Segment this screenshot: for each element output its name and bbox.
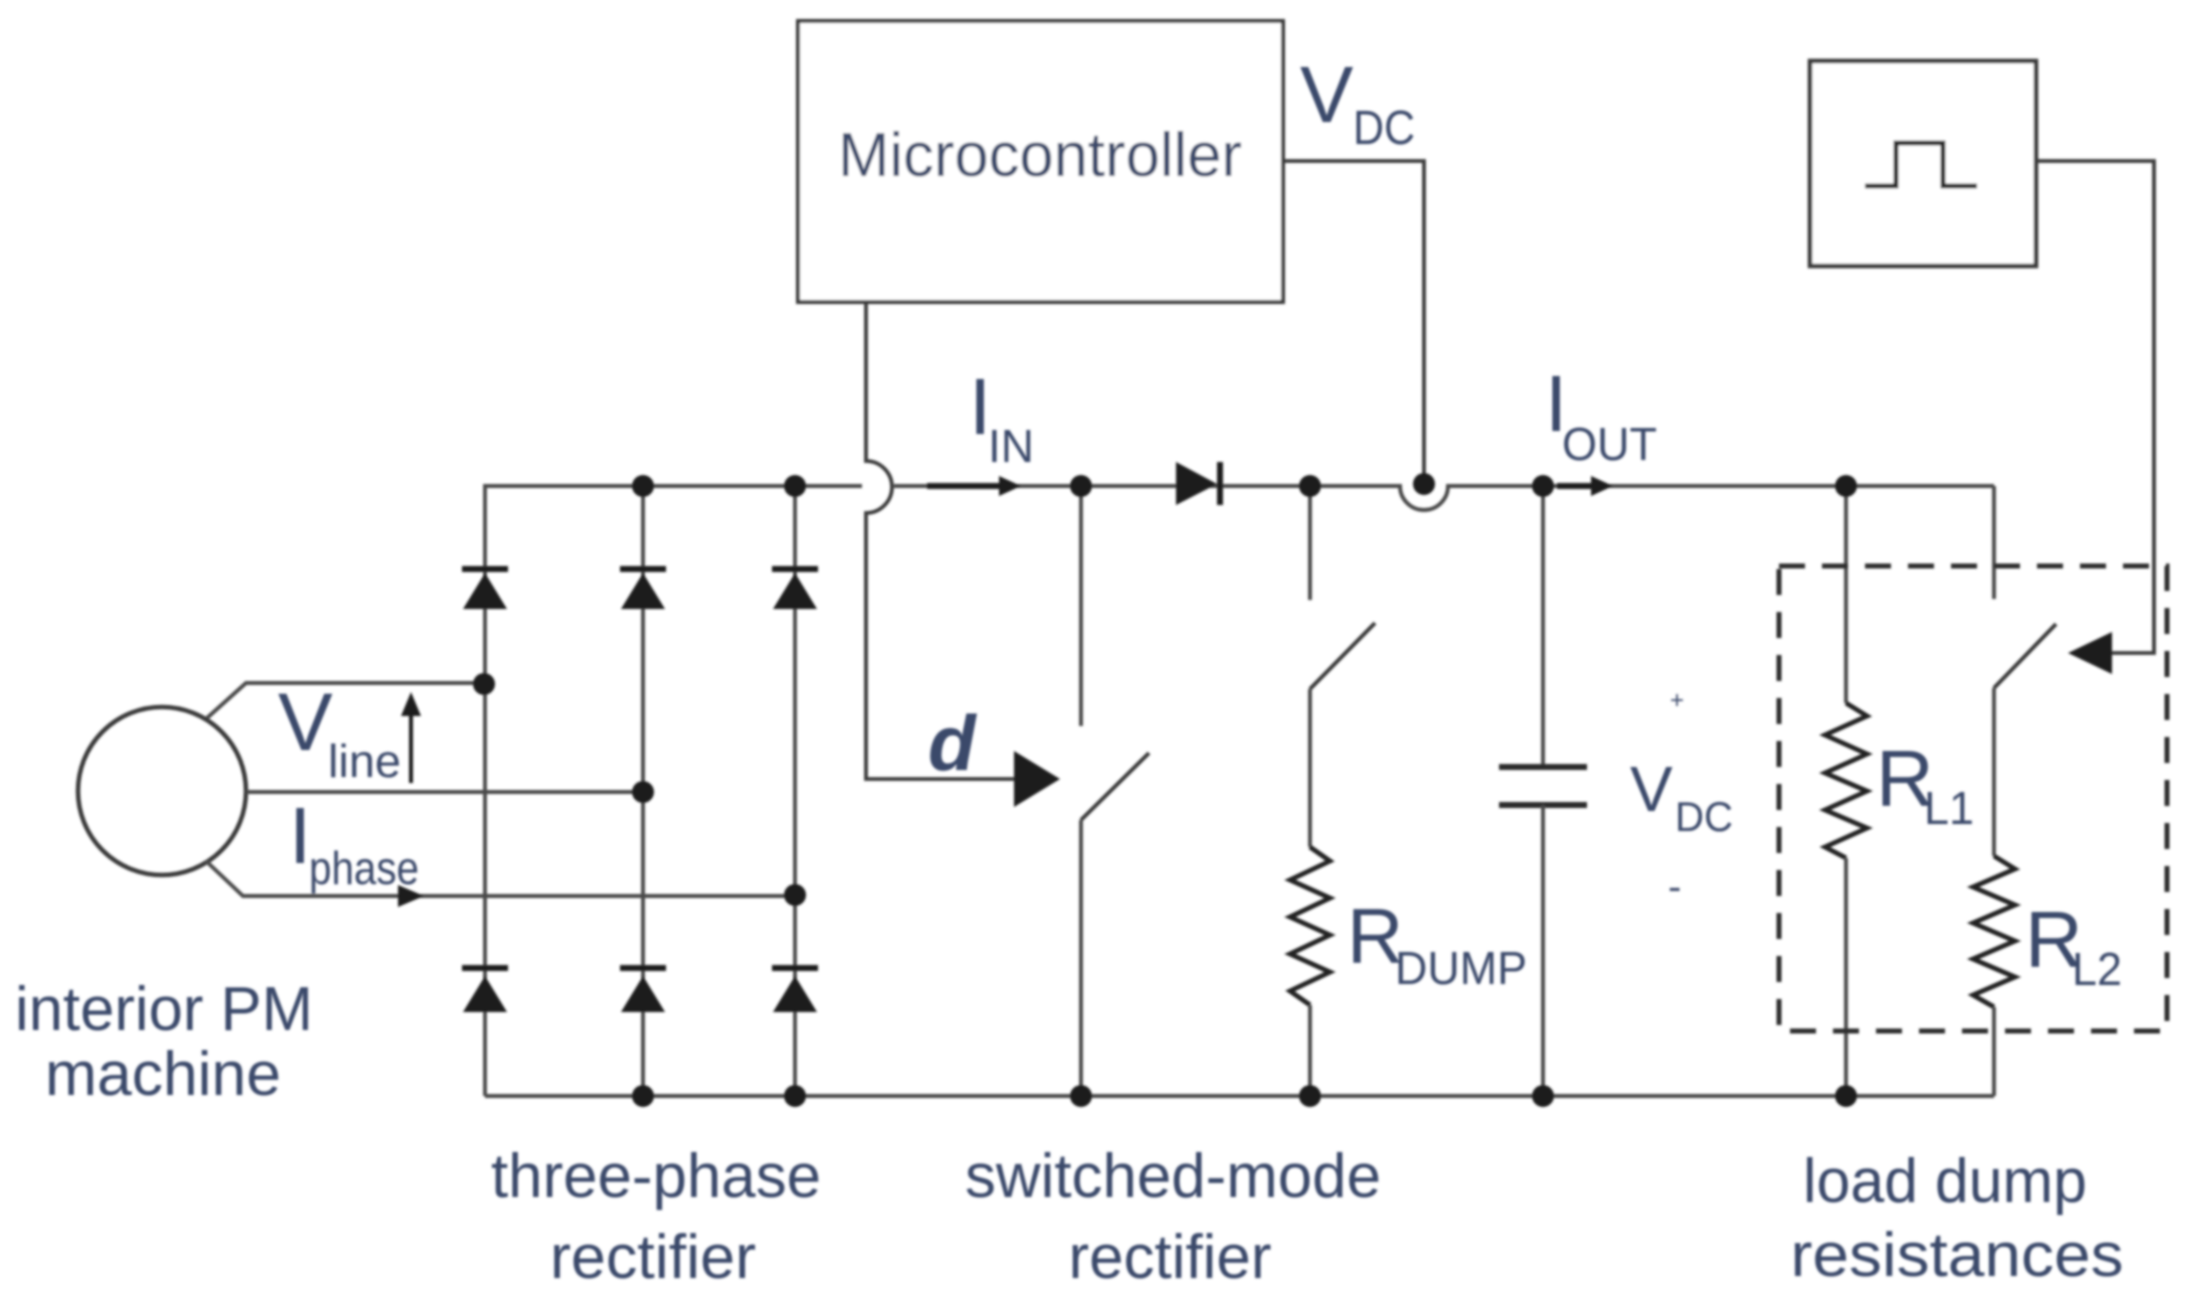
wire phase B (middle) from machine to rectifier <box>246 790 643 794</box>
R_DUMP leg upper wire <box>1308 486 1312 600</box>
SMR switch lower lead wire <box>1079 820 1083 1096</box>
node A3 top bus switch leg <box>1070 475 1092 497</box>
resistor R_L2 zigzag <box>1973 856 2015 1007</box>
capacitor lower plate <box>1499 802 1587 808</box>
top bus right of hop with dip arc at VDC sense node <box>894 486 1994 510</box>
wire phase C (bottom) from machine to rectifier <box>206 861 795 896</box>
svg-text:resistances: resistances <box>1791 1221 2124 1290</box>
capacitor C1 lower lead wire <box>1541 805 1545 1096</box>
load dump switch blade <box>1994 624 2056 688</box>
node B6 bottom bus RL1 leg <box>1835 1085 1857 1107</box>
svg-text:V: V <box>1630 753 1673 825</box>
SMR switch leg <box>1079 486 1083 726</box>
svg-text:L1: L1 <box>1924 782 1974 834</box>
R_L2 lower lead wire <box>1992 1007 1996 1096</box>
R_DUMP lower lead wire <box>1308 1005 1312 1096</box>
svg-text:rectifier: rectifier <box>550 1223 756 1292</box>
node A4 top bus rdump leg <box>1299 475 1321 497</box>
interior PM machine circle <box>78 707 246 875</box>
R_L2 leg upper wire <box>1992 486 1996 599</box>
node A5 top bus cap leg <box>1532 475 1554 497</box>
svg-text:I: I <box>289 791 311 880</box>
rectifier leg 3 <box>793 486 797 1096</box>
d gate drive wire from microcontroller with hop over bus <box>866 302 1016 779</box>
svg-text:interior PM: interior PM <box>15 975 313 1044</box>
svg-text:three-phase: three-phase <box>491 1142 821 1211</box>
SMR switch blade <box>1081 753 1149 820</box>
V_line measurement arrow <box>409 702 413 783</box>
bottom bus <box>485 1094 1994 1098</box>
I_IN arrow <box>927 483 1002 489</box>
svg-text:DC: DC <box>1353 102 1415 155</box>
diode D5 bottom leg2 <box>620 968 666 1012</box>
svg-text:rectifier: rectifier <box>1069 1223 1272 1292</box>
wire phase A (top) from machine to rectifier <box>207 683 484 718</box>
series diode D7 on bus <box>1176 462 1220 505</box>
load switch lower lead wire <box>1992 688 1996 856</box>
I_OUT arrow <box>1557 483 1595 489</box>
node B2 bottom bus leg3 <box>784 1085 806 1107</box>
Microcontroller box U1 <box>798 21 1283 302</box>
pulse symbol <box>1865 143 1977 186</box>
VDC sense node dot (ringed) <box>1413 473 1435 495</box>
svg-text:OUT: OUT <box>1562 418 1657 470</box>
svg-text:d: d <box>928 699 977 787</box>
node A6 top bus RL1 leg <box>1835 475 1857 497</box>
node P2 phase B <box>632 781 654 803</box>
diode D6 bottom leg3 <box>772 968 818 1012</box>
svg-text:-: - <box>1668 865 1681 909</box>
d arrowhead <box>1014 751 1060 807</box>
R_DUMP switch lower lead wire <box>1308 689 1312 847</box>
I_phase arrowhead on phase C wire <box>398 885 424 907</box>
capacitor plates <box>1499 764 1587 770</box>
diode D4 bottom leg1 <box>462 968 508 1012</box>
resistor R_L1 zigzag <box>1825 703 1867 858</box>
node B3 bottom bus switch leg <box>1070 1085 1092 1107</box>
svg-text:V: V <box>1300 50 1354 139</box>
node B4 bottom bus rdump leg <box>1299 1085 1321 1107</box>
svg-text:Microcontroller: Microcontroller <box>838 121 1242 190</box>
svg-text:+: + <box>1670 687 1684 714</box>
VDC sense wire from microcontroller to bus node <box>1283 161 1424 480</box>
svg-text:line: line <box>328 735 401 787</box>
svg-text:DC: DC <box>1675 793 1733 840</box>
svg-text:DUMP: DUMP <box>1395 942 1527 994</box>
svg-text:machine: machine <box>45 1040 281 1109</box>
svg-text:load dump: load dump <box>1803 1147 2087 1216</box>
svg-text:switched-mode: switched-mode <box>965 1142 1381 1211</box>
resistor R_DUMP zigzag <box>1290 847 1330 1005</box>
diode D1 top leg1 <box>462 569 508 609</box>
diode D2 top leg2 <box>620 569 666 609</box>
node P3 phase C <box>784 884 806 906</box>
R_DUMP switch blade <box>1310 623 1375 689</box>
capacitor C1 leg <box>1541 486 1545 766</box>
rectifier leg 1 (left) with top bus left segment <box>485 486 862 1096</box>
pulse control wire <box>2036 161 2154 653</box>
node A2 top bus leg3 <box>784 475 806 497</box>
R_L1 leg <box>1844 486 1848 703</box>
svg-text:L2: L2 <box>2072 943 2122 995</box>
node P1 phase A <box>473 673 495 695</box>
svg-text:V: V <box>278 677 333 768</box>
diode D3 top leg3 <box>772 569 818 609</box>
load dump dashed box <box>1779 566 2167 1031</box>
pulse wire arrowhead <box>2068 632 2112 674</box>
R_L1 lower lead wire <box>1844 858 1848 1096</box>
node B1 bottom bus leg2 <box>632 1085 654 1107</box>
pulse generator box <box>1810 61 2036 266</box>
node B5 bottom bus cap leg <box>1532 1085 1554 1107</box>
rectifier leg 2 <box>641 486 645 1096</box>
svg-text:IN: IN <box>988 420 1034 472</box>
svg-text:phase: phase <box>309 842 419 894</box>
node A1 top bus leg2 <box>632 475 654 497</box>
